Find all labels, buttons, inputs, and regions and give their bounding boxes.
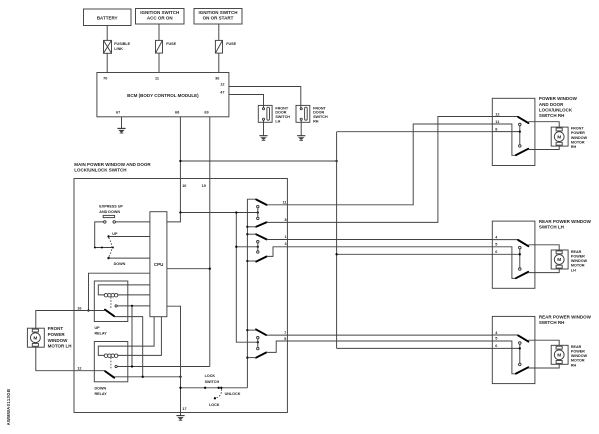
wire main pin 16 to up relay xyxy=(74,310,105,312)
contact circles S1 xyxy=(257,205,259,207)
wire UP contact to CPU xyxy=(109,236,150,238)
junction xyxy=(94,247,96,249)
node center contact in rear window switch LH xyxy=(519,253,521,255)
LOCK position contact xyxy=(214,397,216,399)
wire main pin 12 to down relay xyxy=(74,370,105,372)
wire down relay output xyxy=(114,376,180,378)
svg-text:LOCK: LOCK xyxy=(209,403,220,407)
svg-text:FUSE: FUSE xyxy=(226,42,236,46)
up relay coil xyxy=(104,293,118,297)
junction xyxy=(246,226,248,228)
wire START to fuse 2 xyxy=(218,24,220,40)
svg-text:WINDOW: WINDOW xyxy=(571,136,588,140)
svg-text:6: 6 xyxy=(495,344,497,348)
svg-text:MAIN POWER WINDOW AND DOOR: MAIN POWER WINDOW AND DOOR xyxy=(74,162,151,167)
up relay armature xyxy=(105,310,114,317)
svg-text:RELAY: RELAY xyxy=(95,392,108,396)
CPU U2 xyxy=(150,212,167,317)
wire pin B path in front window/lock switch RH xyxy=(492,124,516,155)
wire main pin 5 to rear window switch RH pin 5 xyxy=(266,341,492,352)
ground G1 xyxy=(117,128,125,133)
svg-text:6: 6 xyxy=(495,250,497,254)
express switch actuator bar xyxy=(103,215,114,217)
svg-text:DOWN: DOWN xyxy=(95,386,107,390)
junction xyxy=(220,387,222,389)
wire bank B/C feed vertical xyxy=(236,213,257,343)
wire BCM pin 12 to front door switch RH xyxy=(229,87,301,109)
wire up relay sense to CPU xyxy=(89,273,150,310)
wire main pin 8 to front window switch RH pin 12 xyxy=(267,117,493,223)
svg-text:LH: LH xyxy=(275,119,280,123)
wire BCM pin 67 to ground xyxy=(121,117,123,129)
svg-text:BATTERY: BATTERY xyxy=(97,15,118,20)
wire front door switch RH to ground xyxy=(300,120,302,135)
svg-text:5: 5 xyxy=(495,243,497,247)
rear power window motor RH xyxy=(551,345,568,364)
svg-text:MOTOR: MOTOR xyxy=(571,140,585,144)
junction xyxy=(87,309,89,311)
wire fusible link to BCM pin 70 xyxy=(106,53,108,72)
svg-text:3: 3 xyxy=(284,242,286,246)
junction xyxy=(179,211,181,213)
svg-text:67: 67 xyxy=(116,111,120,115)
svg-text:REAR POWER WINDOW: REAR POWER WINDOW xyxy=(539,314,592,319)
svg-text:ON OR START: ON OR START xyxy=(203,16,234,21)
wire main pin 1 to rear window switch LH pin 4 xyxy=(267,239,493,241)
junction xyxy=(235,246,237,248)
wire bus to rear power window switch RH pin 6 xyxy=(337,347,493,349)
switch S4 (pin 3) xyxy=(256,257,267,262)
svg-text:8: 8 xyxy=(284,218,286,222)
contact circle bottom in rear window switch RH xyxy=(519,363,522,366)
svg-text:MOTOR: MOTOR xyxy=(571,359,585,363)
svg-text:SWITCH RH: SWITCH RH xyxy=(539,113,565,118)
svg-text:IGNITION SWITCH: IGNITION SWITCH xyxy=(140,10,179,15)
lock switch wiper arc xyxy=(216,389,222,398)
svg-text:19: 19 xyxy=(202,184,206,188)
svg-text:SWITCH LH: SWITCH LH xyxy=(539,225,564,230)
UP contact xyxy=(107,235,109,237)
wire pin 10 feed rail xyxy=(180,212,257,214)
svg-text:RELAY: RELAY xyxy=(95,331,108,335)
svg-text:RH: RH xyxy=(571,145,577,149)
down armature of rear window switch LH xyxy=(516,272,528,278)
junction xyxy=(101,247,103,249)
switch S6 (pin 5) xyxy=(256,353,266,358)
wire down relay coil left to CPU xyxy=(98,317,154,356)
fuse F2 xyxy=(215,40,222,53)
contact link in rear window switch RH xyxy=(519,344,521,363)
svg-text:ACC OR ON: ACC OR ON xyxy=(147,16,173,21)
down armature of rear window switch RH xyxy=(516,367,528,373)
wire pin C into front window/lock switch RH xyxy=(492,131,520,133)
wire main pin 7 to rear window switch RH pin 4 xyxy=(266,334,492,336)
svg-text:REAR POWER WINDOW: REAR POWER WINDOW xyxy=(539,219,592,224)
junction xyxy=(131,305,133,307)
junction xyxy=(257,246,259,248)
contact circle bottom in rear window switch LH xyxy=(519,268,522,271)
svg-text:UNLOCK: UNLOCK xyxy=(225,392,241,396)
junction xyxy=(179,376,181,378)
front door switch RH xyxy=(296,105,310,122)
svg-text:MOTOR: MOTOR xyxy=(571,264,585,268)
svg-text:10: 10 xyxy=(182,184,186,188)
wire battery to fusible link xyxy=(106,26,108,41)
switch S1 up (pin 11) xyxy=(256,200,266,205)
wire express switch common xyxy=(95,222,114,248)
wire bus vertical xyxy=(336,132,338,349)
svg-text:11: 11 xyxy=(155,77,159,81)
wire up relay coil left to CPU xyxy=(98,285,150,295)
junction xyxy=(112,247,114,249)
wire main pin 3 to rear window switch LH pin 5 xyxy=(267,247,493,257)
down armature of front window/lock switch RH xyxy=(516,149,528,155)
svg-text:12: 12 xyxy=(77,367,81,371)
junction xyxy=(257,211,259,213)
svg-text:69: 69 xyxy=(204,111,208,115)
wire down relay contact to pin 19 net xyxy=(117,366,210,368)
wire pin B path in rear window switch RH xyxy=(492,341,516,374)
battery B+ box xyxy=(84,9,132,26)
express switch contacts xyxy=(104,221,107,224)
contact link in rear window switch LH xyxy=(519,249,521,268)
up relay contact xyxy=(115,305,117,307)
wire branch node to window circuit bus xyxy=(180,160,336,162)
wire up relay contact to CPU xyxy=(117,305,150,307)
front power window motor RH xyxy=(551,127,568,146)
front door switch LH xyxy=(258,105,272,122)
svg-text:BCM (BODY CONTROL MODULE): BCM (BODY CONTROL MODULE) xyxy=(127,93,199,98)
switch S2 (pin 8) xyxy=(256,222,267,226)
junction xyxy=(335,253,337,255)
junction xyxy=(204,387,206,389)
wire bank B feed xyxy=(236,246,257,248)
box rear window switch RH xyxy=(492,316,535,383)
down relay coil xyxy=(104,354,118,358)
down relay armature xyxy=(105,371,114,378)
contact circles S5 xyxy=(257,337,259,339)
wire BCM pin 47 to front door switch LH xyxy=(229,95,264,109)
junction xyxy=(179,387,181,389)
svg-text:8: 8 xyxy=(495,127,497,131)
wire front window/lock switch RH to motor - xyxy=(528,146,559,149)
wire CPU ground leg xyxy=(167,306,181,415)
wire BCM pin 69 to main switch pin 19 xyxy=(209,117,211,367)
wire up relay coil right to CPU xyxy=(117,294,150,296)
svg-text:FUSE: FUSE xyxy=(166,42,176,46)
svg-text:FUSIBLE: FUSIBLE xyxy=(114,42,130,46)
svg-text:16: 16 xyxy=(77,306,81,310)
node center contact in front window/lock switch RH xyxy=(519,130,521,132)
wire pin C into rear window switch LH xyxy=(492,253,520,255)
contact circle top in front window/lock switch RH xyxy=(519,123,522,126)
junction xyxy=(235,211,237,213)
svg-text:POWER: POWER xyxy=(48,332,66,337)
svg-text:POWER WINDOW: POWER WINDOW xyxy=(539,96,578,101)
svg-text:WINDOW: WINDOW xyxy=(571,354,588,358)
svg-text:47: 47 xyxy=(220,91,224,95)
rear power window motor LH xyxy=(551,250,568,269)
svg-text:17: 17 xyxy=(182,407,186,411)
svg-text:REAR: REAR xyxy=(571,345,582,349)
svg-text:WINDOW: WINDOW xyxy=(48,338,68,343)
svg-text:12: 12 xyxy=(495,112,499,116)
svg-text:UP: UP xyxy=(112,232,118,236)
junction xyxy=(246,329,248,331)
junction xyxy=(179,160,181,162)
wire front window/lock switch RH to motor + xyxy=(528,122,559,127)
contact circle top in rear window switch RH xyxy=(519,342,522,345)
svg-text:FRONT: FRONT xyxy=(571,127,584,131)
switch S5 lock (pin 7) xyxy=(256,329,266,335)
wire front door switch LH to ground xyxy=(263,120,265,135)
svg-text:POWER: POWER xyxy=(571,131,585,135)
svg-text:LH: LH xyxy=(571,268,576,272)
wire pin C into rear window switch RH xyxy=(492,347,520,349)
wire pin B path in rear window switch LH xyxy=(492,247,516,279)
svg-text:AWMWA0113GB: AWMWA0113GB xyxy=(6,389,11,426)
wire bus to rear power window switch LH pin 6 xyxy=(337,253,493,255)
wire rear window switch LH to motor + xyxy=(528,245,559,250)
ignition switch START box xyxy=(194,9,242,25)
wire pin A into rear window switch RH xyxy=(492,334,518,336)
svg-text:5: 5 xyxy=(495,337,497,341)
svg-text:36: 36 xyxy=(215,77,219,81)
svg-text:7: 7 xyxy=(284,331,286,335)
svg-text:LOCK/UNLOCK: LOCK/UNLOCK xyxy=(539,108,573,113)
BCM U1 (body control module) xyxy=(97,73,229,117)
svg-text:RH: RH xyxy=(571,363,577,367)
junction xyxy=(246,260,248,262)
switch S3 (pin 1) xyxy=(256,234,267,239)
svg-text:SWITCH: SWITCH xyxy=(205,380,220,384)
wire BCM pin 68 to main switch pin 10 xyxy=(179,117,181,213)
wire fuse 1 to BCM pin 11 xyxy=(158,53,160,72)
contact circle bottom in front window/lock switch RH xyxy=(519,145,522,148)
up armature of rear window switch RH xyxy=(518,335,528,341)
DOWN contact xyxy=(107,257,109,259)
wire down relay coil right to CPU xyxy=(117,317,161,356)
wire DOWN contact to CPU xyxy=(109,257,150,259)
junction xyxy=(131,365,133,367)
svg-text:68: 68 xyxy=(175,111,179,115)
wire main pin 11 to front window switch RH xyxy=(267,124,493,205)
wire motor LH to main pin 16 xyxy=(36,311,74,329)
junction xyxy=(257,341,259,343)
up relay plunger dash xyxy=(110,297,112,308)
contact link in front window/lock switch RH xyxy=(519,126,521,145)
svg-text:12: 12 xyxy=(220,83,224,87)
svg-text:AND DOWN: AND DOWN xyxy=(99,210,120,214)
contact circles S3 xyxy=(257,241,259,243)
wire pin 10 to CPU express input xyxy=(167,213,181,222)
up relay K1 xyxy=(94,281,128,322)
down relay plunger dash xyxy=(110,358,112,370)
box rear window switch LH xyxy=(492,221,535,288)
wire pin A into rear window switch LH xyxy=(492,239,518,241)
ground G2 xyxy=(259,136,267,141)
junction xyxy=(335,160,337,162)
svg-text:11: 11 xyxy=(495,120,499,124)
svg-text:IGNITION SWITCH: IGNITION SWITCH xyxy=(199,10,238,15)
wire fuse 2 to BCM pin 36 xyxy=(218,53,220,72)
svg-text:REAR: REAR xyxy=(571,250,582,254)
node center contact in rear window switch RH xyxy=(519,347,521,349)
wire switch bank common vertical xyxy=(247,199,256,388)
svg-text:LINK: LINK xyxy=(114,47,123,51)
junction xyxy=(246,233,248,235)
wire bus to front power window switch RH pin 8 xyxy=(337,131,493,133)
svg-text:LOCK: LOCK xyxy=(205,374,216,378)
junction xyxy=(246,356,248,358)
svg-text:WINDOW: WINDOW xyxy=(571,259,588,263)
fuse F1 xyxy=(156,40,163,53)
svg-text:DOWN: DOWN xyxy=(114,262,126,266)
front power window motor LH xyxy=(27,328,44,347)
junction xyxy=(209,268,211,270)
svg-text:MOTOR LH: MOTOR LH xyxy=(48,344,72,349)
wire CPU to pin 19 xyxy=(167,268,210,270)
svg-text:5: 5 xyxy=(284,337,286,341)
ignition switch ACC box xyxy=(136,9,185,25)
down relay contact xyxy=(115,365,117,367)
svg-text:LOCK/UNLOCK SWITCH: LOCK/UNLOCK SWITCH xyxy=(74,168,126,173)
down relay K2 xyxy=(94,342,128,382)
svg-text:SWITCH RH: SWITCH RH xyxy=(539,320,565,325)
svg-text:11: 11 xyxy=(283,200,287,204)
svg-text:AND DOOR: AND DOOR xyxy=(539,102,564,107)
svg-text:EXPRESS UP: EXPRESS UP xyxy=(99,205,123,209)
svg-text:70: 70 xyxy=(103,77,107,81)
junction xyxy=(142,376,144,378)
wire rear window switch RH to motor + xyxy=(528,340,559,345)
ground G4 xyxy=(176,416,184,421)
wire pin A into front window/lock switch RH xyxy=(492,116,518,118)
wiper arc xyxy=(109,238,112,257)
svg-text:RH: RH xyxy=(313,119,319,123)
svg-text:UP: UP xyxy=(95,326,101,330)
svg-text:POWER: POWER xyxy=(571,350,585,354)
wire ACC to fuse 1 xyxy=(158,24,160,40)
svg-text:1: 1 xyxy=(284,235,286,239)
junction xyxy=(218,387,220,389)
fusible link FL xyxy=(104,40,112,53)
ground G3 xyxy=(297,136,305,141)
wire rear window switch RH to motor - xyxy=(528,364,559,368)
contact circle top in rear window switch LH xyxy=(519,246,522,249)
wire relay contact bus xyxy=(131,306,133,367)
wire up relay output xyxy=(114,317,142,377)
svg-text:CPU: CPU xyxy=(154,262,164,267)
up armature of rear window switch LH xyxy=(518,240,528,246)
main power window and door lock/unlock switch box xyxy=(74,179,287,413)
svg-text:FRONT: FRONT xyxy=(48,326,64,331)
wire motor LH to main pin 12 xyxy=(36,347,74,371)
wire express switch to CPU xyxy=(116,221,150,223)
wire lock switch feed xyxy=(181,387,248,389)
box front window/lock switch RH xyxy=(492,98,535,165)
svg-text:POWER: POWER xyxy=(571,255,585,259)
up armature of front window/lock switch RH xyxy=(518,117,528,123)
wire rear window switch LH to motor - xyxy=(528,269,559,273)
